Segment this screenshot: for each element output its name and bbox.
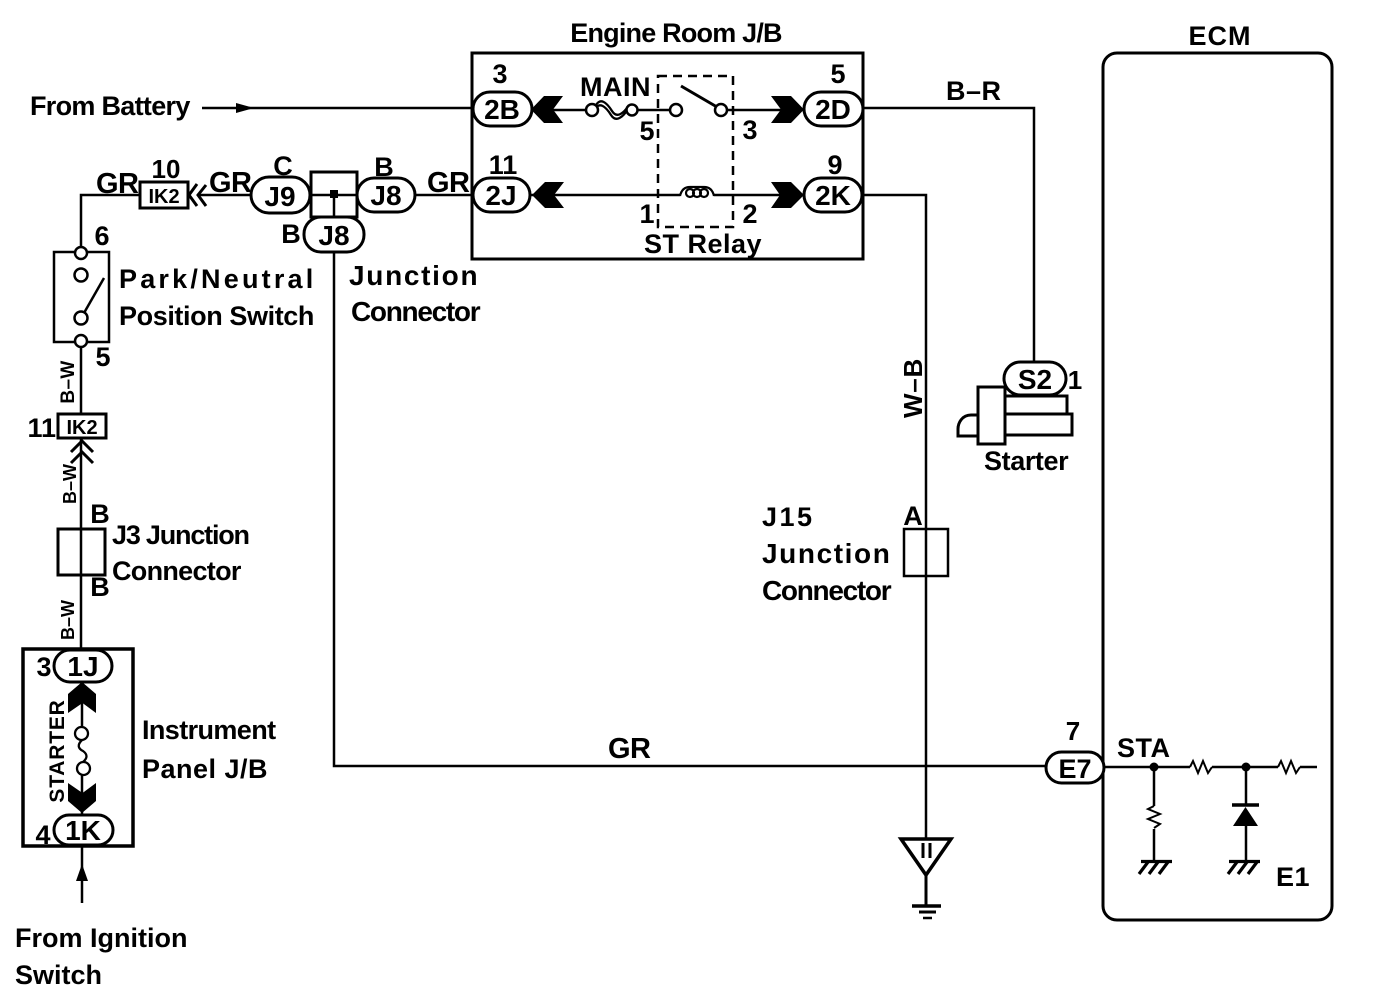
svg-text:2K: 2K [815, 180, 851, 211]
svg-text:Engine Room J/B: Engine Room J/B [570, 18, 782, 48]
svg-text:J9: J9 [264, 181, 295, 212]
switch inside instrument panel [75, 727, 90, 775]
junction connector J15 [904, 529, 948, 576]
svg-text:5: 5 [639, 116, 654, 146]
svg-text:Connector: Connector [762, 575, 892, 606]
wire park/neutral pin5 to IK2 11 [80, 346, 83, 414]
connector J8 bottom [304, 217, 364, 252]
ECM box [1103, 53, 1332, 920]
connector 2B [473, 92, 532, 126]
diode to ground [1232, 805, 1259, 826]
svg-text:11: 11 [27, 413, 56, 443]
svg-text:B: B [374, 152, 394, 182]
park/neutral position switch [54, 247, 109, 347]
arrowhead battery wire [236, 103, 254, 113]
svg-text:1: 1 [639, 199, 654, 229]
Engine Room J/B box [472, 53, 863, 259]
svg-text:IK2: IK2 [148, 186, 179, 208]
svg-text:J15: J15 [762, 502, 815, 532]
svg-text:Connector: Connector [351, 296, 481, 327]
svg-text:3: 3 [742, 115, 757, 145]
wire 2J to relay coil [530, 194, 680, 197]
wire J8 to E7 (GR) [334, 252, 1046, 766]
resistor vertical [1148, 806, 1160, 828]
svg-text:Panel J/B: Panel J/B [142, 754, 268, 784]
wire E7 into ECM STA [1104, 766, 1190, 769]
svg-text:W–B: W–B [898, 358, 928, 418]
svg-text:4: 4 [35, 820, 50, 850]
junction connector J3 [58, 529, 105, 575]
connector 2J [473, 178, 530, 212]
arrow down inside panel [68, 783, 96, 813]
arrow into 2B [531, 96, 563, 123]
svg-text:GR: GR [96, 168, 139, 200]
svg-text:C: C [273, 151, 293, 181]
svg-text:J8: J8 [370, 180, 401, 211]
svg-text:2: 2 [742, 199, 757, 229]
junction connector block J8/J9 [311, 172, 357, 217]
resistor horizontal 1 [1190, 761, 1212, 773]
svg-text:2B: 2B [484, 94, 520, 125]
wire IK2 to 2J through J9 J8 [198, 194, 473, 197]
svg-text:Instrument: Instrument [142, 715, 276, 745]
ground hatch 1 [1139, 862, 1172, 875]
svg-text:1K: 1K [65, 815, 101, 846]
svg-text:From Battery: From Battery [30, 91, 190, 121]
wire IK2 11 to J3 to 1J [80, 438, 83, 650]
svg-text:J8: J8 [318, 220, 349, 251]
svg-text:11: 11 [489, 150, 518, 180]
ST Relay dashed box [658, 76, 733, 227]
svg-text:3: 3 [36, 652, 51, 682]
connector J9 [251, 177, 310, 213]
svg-text:Junction: Junction [762, 538, 891, 569]
arrow into 2D [771, 96, 804, 123]
node dot STA 1 [1150, 763, 1159, 772]
svg-text:B: B [90, 572, 110, 602]
small arrow from ignition [76, 864, 88, 881]
svg-text:E7: E7 [1058, 754, 1091, 784]
svg-text:2D: 2D [815, 94, 851, 125]
svg-text:2J: 2J [485, 180, 516, 211]
svg-text:ST Relay: ST Relay [644, 229, 762, 259]
svg-text:MAIN: MAIN [580, 72, 651, 102]
wire park/neutral switch to IK2 [81, 195, 140, 247]
svg-text:1J: 1J [67, 651, 98, 682]
wire 2K to ground triangle (W-B) [862, 195, 926, 838]
svg-text:10: 10 [152, 154, 181, 184]
wire from ignition switch to 1K [81, 845, 84, 903]
instrument panel J/B box [23, 649, 133, 846]
ST relay switch contacts [670, 86, 727, 116]
wire relay contact to 2D [727, 109, 804, 112]
svg-text:7: 7 [1066, 716, 1080, 746]
connector IK2 (10) [140, 182, 188, 208]
svg-text:E1: E1 [1276, 862, 1310, 892]
arrow into 2J [532, 182, 564, 208]
connector E7 [1046, 752, 1104, 784]
svg-text:GR: GR [209, 167, 252, 199]
connector IK2 (11) [58, 414, 106, 439]
svg-text:3: 3 [492, 59, 507, 89]
wire from battery [202, 107, 472, 110]
svg-text:Switch: Switch [15, 960, 102, 990]
svg-text:B–W: B–W [58, 600, 78, 640]
wire relay coil to 2K [714, 194, 804, 197]
svg-text:From Ignition: From Ignition [15, 923, 187, 953]
svg-text:6: 6 [94, 221, 109, 251]
svg-text:B–R: B–R [946, 76, 1002, 106]
svg-text:B: B [281, 219, 301, 249]
svg-text:5: 5 [830, 59, 845, 89]
svg-text:S2: S2 [1018, 364, 1052, 395]
starter motor symbol [958, 387, 1072, 444]
wire fuse to relay contact [638, 109, 670, 112]
svg-text:STARTER: STARTER [46, 699, 69, 802]
wire inside instrument panel J/B [81, 682, 84, 730]
svg-text:A: A [903, 501, 923, 531]
svg-text:Park/Neutral: Park/Neutral [119, 264, 316, 294]
svg-text:B: B [90, 499, 110, 529]
svg-text:B–W: B–W [60, 464, 80, 504]
svg-text:GR: GR [608, 733, 651, 765]
svg-text:B–W: B–W [58, 360, 79, 403]
arrow into 2K [771, 182, 804, 208]
arrow up inside panel [68, 682, 96, 713]
wire STA node to resistor R1 [1153, 767, 1156, 806]
svg-text:9: 9 [827, 150, 842, 180]
splice chevrons after IK2 [189, 184, 206, 206]
wire 2B to fuse [532, 109, 586, 112]
ground hatch 2 [1228, 862, 1260, 875]
svg-text:Junction: Junction [349, 260, 479, 291]
connector J8 right [357, 178, 415, 212]
svg-text:GR: GR [427, 167, 470, 199]
svg-text:Position Switch: Position Switch [119, 301, 314, 331]
node dot STA 2 [1242, 763, 1251, 772]
connector 2K [804, 178, 862, 212]
svg-text:Connector: Connector [112, 556, 242, 586]
svg-text:ECM: ECM [1189, 21, 1252, 51]
fuse MAIN [586, 101, 638, 118]
svg-text:Starter: Starter [984, 446, 1069, 476]
connector S2 [1004, 362, 1066, 395]
ST relay coil [680, 187, 714, 197]
svg-text:J3 Junction: J3 Junction [112, 520, 249, 550]
ground triangle with noise filter [901, 839, 951, 918]
svg-text:5: 5 [95, 342, 110, 372]
svg-text:1: 1 [1068, 365, 1082, 395]
resistor horizontal 2 [1278, 761, 1300, 773]
wire node2 to diode [1245, 767, 1248, 804]
connector 1J [54, 650, 112, 682]
connector 2D [804, 92, 863, 126]
wire 2D to starter S2 (B-R) [863, 108, 1034, 362]
splice chevrons below IK2 11 [71, 441, 93, 463]
svg-text:IK2: IK2 [66, 417, 97, 439]
connector 1K [54, 815, 113, 846]
svg-text:STA: STA [1117, 733, 1171, 763]
